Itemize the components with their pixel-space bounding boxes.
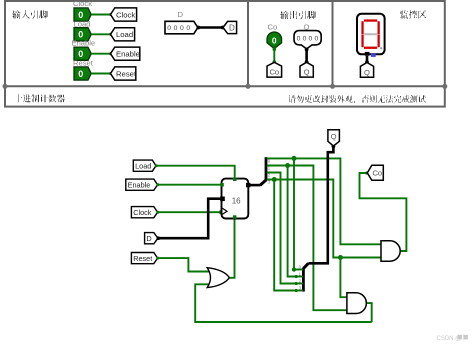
wire pin Reset to tunnel: [91, 72, 112, 75]
splitter S1 (fan-out): [260, 157, 266, 185]
OR gate G1: [207, 268, 229, 288]
counter port Clear (bottom): [233, 215, 237, 219]
svg-text:Enable: Enable: [128, 181, 151, 190]
tunnel D (circuit): [145, 233, 158, 244]
seven-segment segments (digit 0): [361, 19, 379, 48]
tunnel Reset (circuit): [131, 253, 157, 264]
panel title 输出引脚: [281, 11, 316, 19]
counter clock chevron: [222, 208, 227, 214]
svg-text:Clock: Clock: [73, 0, 92, 8]
tunnel Clock: [111, 8, 137, 21]
svg-text:Load: Load: [116, 30, 133, 39]
tunnel D (panel): [223, 21, 237, 33]
tunnel Q (circuit): [328, 130, 340, 146]
wire bit3 drop to S2: [274, 180, 298, 293]
AND gate G2 (carry detect 9): [381, 241, 400, 261]
svg-text:Q: Q: [331, 132, 337, 141]
svg-text:Co: Co: [269, 68, 279, 77]
svg-text:Co: Co: [268, 22, 278, 31]
node bit0 junction: [292, 156, 297, 161]
frame outer border: [5, 1, 445, 107]
splitter S2 bit labels: [299, 264, 302, 290]
seven-segment decimal point (off): [380, 47, 382, 49]
wire AND1 output to tunnel Co: [360, 171, 407, 251]
counter port Load (top): [233, 178, 237, 182]
counter port D: [220, 197, 225, 202]
label Q (grey): [304, 22, 310, 31]
wire Q pin to tunnel (4-bit bus): [305, 48, 309, 64]
output pin Q value 0000: [294, 31, 321, 49]
svg-text:Q: Q: [364, 68, 370, 77]
caption 请勿更改封装外观，否则无法完成测试: [289, 95, 426, 103]
svg-text:Q: Q: [304, 68, 310, 77]
watermark CSDN: [437, 335, 468, 342]
wire bit3 branch to AND2 upper input: [340, 258, 347, 298]
wire bit1 (S1 to AND2 lower input): [267, 166, 348, 311]
tunnel Clock (circuit): [131, 207, 157, 218]
wire D pin to tunnel (4-bit bus): [197, 26, 225, 30]
svg-text:Reset: Reset: [116, 69, 137, 78]
wire display to tunnel Q: [365, 56, 369, 64]
panel title 输入引脚: [13, 11, 48, 19]
wire Co pin to tunnel: [273, 48, 277, 64]
node bit3 junction to AND2: [338, 255, 343, 260]
frame divider panel2/panel3: [332, 1, 334, 86]
wire Reset to OR gate: [156, 257, 209, 272]
tunnel Reset: [111, 67, 137, 80]
counter port Q (output): [246, 183, 250, 187]
tunnel Enable (circuit): [126, 179, 158, 190]
input pin D value 0000: [165, 21, 198, 34]
svg-text:0000: 0000: [167, 25, 193, 32]
wire pin Clock to tunnel: [91, 13, 112, 16]
panel title 监控区: [401, 11, 427, 19]
svg-text:Load: Load: [135, 162, 151, 171]
frame divider panel1/panel2: [247, 1, 249, 86]
svg-text:0: 0: [78, 10, 83, 20]
tunnel Load (circuit): [133, 160, 156, 171]
label Reset (grey): [73, 58, 94, 67]
label Clock (grey): [73, 0, 92, 8]
splitter S1 bit labels: [268, 159, 271, 185]
svg-text:Enable: Enable: [116, 50, 140, 59]
frame handles: [3, 84, 448, 89]
tunnel Q (monitor): [360, 63, 373, 78]
svg-text:Co: Co: [372, 169, 382, 178]
wire pin Load to tunnel: [91, 33, 112, 36]
input pin Clock value 0: [74, 8, 91, 21]
svg-text:D: D: [229, 24, 235, 33]
wire bit3 (S1 to AND1 lower input): [267, 180, 382, 258]
label Load (grey): [74, 19, 91, 28]
svg-text:16: 16: [232, 196, 241, 205]
seven-segment input stub (connected): [365, 52, 370, 56]
tunnel Co (panel): [267, 62, 282, 77]
frame row divider: [5, 85, 445, 87]
label D (grey): [178, 10, 184, 19]
wire AND2 output to feedback: [366, 303, 371, 322]
wire Enable to counter: [156, 183, 221, 186]
label Enable (grey): [72, 39, 96, 48]
svg-text:0: 0: [272, 36, 277, 46]
wire OR output to counter clear: [229, 218, 235, 278]
counter port Enable: [220, 183, 224, 187]
wire bit0 (S1 to AND1 upper input): [267, 158, 382, 244]
wire Load to counter top: [155, 164, 235, 179]
wire D to counter (4-bit bus): [157, 199, 222, 240]
output pin Co value 0: [267, 32, 282, 49]
wire Q bus (S2 to tunnel Q): [308, 145, 335, 264]
node bit1 junction: [285, 163, 290, 168]
svg-text:Load: Load: [74, 19, 91, 28]
wire bit1 drop to S2: [288, 166, 298, 279]
node bit3 junction at S1: [272, 177, 277, 182]
seven-segment middle segment (off): [364, 33, 377, 35]
wire counter output bus: [248, 184, 260, 187]
input pin Enable value 0: [74, 47, 91, 60]
svg-text:Clock: Clock: [133, 208, 152, 217]
wire feedback to OR gate lower input: [195, 284, 372, 322]
tunnel Enable: [111, 47, 140, 60]
svg-text:Reset: Reset: [133, 254, 152, 263]
counter U1 (mod-16): [222, 179, 249, 219]
tunnel Q (panel): [300, 62, 313, 77]
svg-text:Enable: Enable: [72, 39, 96, 48]
svg-text:0: 0: [78, 69, 83, 79]
svg-text:Reset: Reset: [73, 58, 94, 67]
wire Clock to counter: [156, 210, 223, 214]
input pin Load value 0: [74, 28, 91, 41]
splitter S2 (recombine): [303, 263, 308, 291]
seven-segment input stub (unconnected, blue): [371, 53, 376, 57]
splitter S2 stubs: [296, 270, 303, 291]
AND gate G3 (reset detect 10): [347, 293, 366, 314]
wire pin Enable to tunnel: [91, 52, 112, 55]
tunnel Load: [111, 28, 135, 41]
wire bit2 (S1 to S2): [267, 173, 298, 286]
svg-text:D: D: [146, 234, 151, 243]
input pin Reset value 0: [74, 67, 91, 80]
tunnel Co (circuit): [367, 165, 383, 180]
wire bit0 drop to S2: [292, 158, 297, 271]
seven-segment display body: [357, 14, 385, 55]
svg-text:0000: 0000: [297, 35, 321, 42]
caption 十进制计数器: [18, 94, 65, 102]
label Co (grey): [268, 22, 278, 31]
svg-text:D: D: [178, 10, 184, 19]
svg-text:Clock: Clock: [116, 10, 135, 19]
